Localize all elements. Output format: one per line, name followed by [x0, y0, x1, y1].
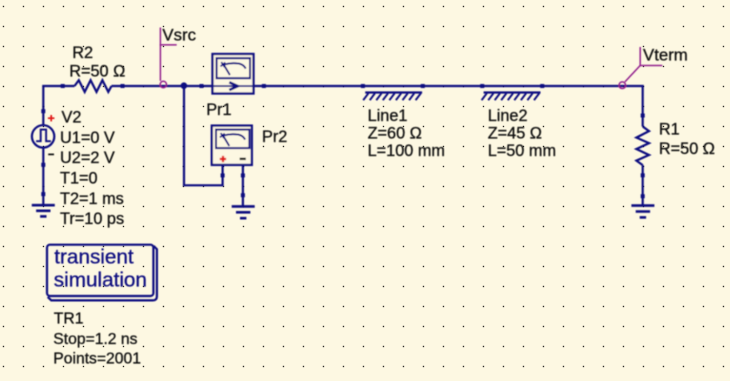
- Pr2 arc: [224, 134, 246, 139]
- sim box shadow: [48, 246, 157, 301]
- Pr1 internal wire: [213, 85, 254, 87]
- svg-text:Vterm: Vterm: [643, 46, 688, 65]
- terminal V2 bottom: [41, 163, 45, 167]
- Line1 hatches: [363, 93, 421, 100]
- terminal ground R1: [641, 194, 645, 198]
- wire: Pr1 to right corner, down to R1: [254, 86, 643, 127]
- svg-text:R2: R2: [72, 44, 93, 62]
- terminal Pr1 right: [262, 84, 266, 88]
- terminal Line2 left: [480, 84, 484, 88]
- svg-text:Stop=1.2 ns: Stop=1.2 ns: [53, 331, 137, 348]
- resistor R1: [636, 114, 715, 178]
- svg-text:T1=0: T1=0: [60, 169, 98, 187]
- op meter Pr2 (voltage probe): [212, 126, 288, 178]
- svg-text:simulation: simulation: [54, 269, 147, 292]
- svg-text:Vsrc: Vsrc: [162, 26, 196, 45]
- wire: node down to Pr2 left terminal: [184, 86, 223, 185]
- terminal Line1 right: [421, 84, 425, 88]
- Line2 hatches: [482, 93, 540, 100]
- V2 circle: [32, 125, 54, 147]
- Pr2 needle feather: [220, 133, 225, 138]
- Pr1 needle: [223, 64, 230, 75]
- terminal R1 top: [641, 114, 645, 118]
- node label Vsrc: [160, 28, 177, 88]
- V2 minus mark: [48, 153, 54, 155]
- node junction: [181, 82, 188, 89]
- svg-text:Points=2001: Points=2001: [53, 351, 141, 368]
- svg-text:U1=0 V: U1=0 V: [60, 129, 115, 147]
- transmission line Line2: [480, 84, 556, 160]
- V2 pulse glyph: [36, 130, 51, 142]
- R1 zigzag: [636, 127, 649, 166]
- ground (V2): [32, 205, 55, 216]
- svg-text:Line1: Line1: [368, 107, 408, 125]
- svg-text:L=50 mm: L=50 mm: [488, 142, 556, 160]
- svg-text:Line2: Line2: [488, 107, 528, 125]
- terminal ground Pr2: [241, 193, 245, 197]
- svg-text:Z=60 Ω: Z=60 Ω: [368, 124, 422, 142]
- svg-text:U2=2 V: U2=2 V: [60, 149, 115, 167]
- terminal Pr2 right: [241, 173, 245, 177]
- svg-text:Z=45 Ω: Z=45 Ω: [488, 124, 542, 142]
- ground (Pr2): [232, 206, 255, 218]
- svg-text:TR1: TR1: [54, 310, 84, 327]
- svg-text:L=100 mm: L=100 mm: [368, 142, 445, 160]
- wire: R1 bottom to ground: [642, 165, 644, 206]
- Line1 ground bar: [365, 91, 422, 93]
- svg-text:R1: R1: [659, 120, 680, 138]
- wire: Pr2 right terminal to ground: [242, 165, 244, 207]
- terminal R2 left: [61, 84, 65, 88]
- ground (R1): [631, 206, 654, 218]
- node label Vterm: [619, 47, 662, 88]
- wire: R2 to Pr1: [112, 85, 213, 87]
- Pr2 outer box: [212, 126, 252, 165]
- svg-text:Pr2: Pr2: [262, 128, 287, 146]
- wire: V2 bottom to ground: [42, 148, 44, 205]
- transmission line Line1: [361, 84, 445, 160]
- resistor R2: [75, 80, 112, 92]
- sim box frame: [47, 245, 153, 296]
- Line2 ground bar: [484, 91, 541, 93]
- svg-text:transient: transient: [54, 246, 134, 269]
- Pr2 meter face: [216, 130, 249, 149]
- terminal Line1 left: [361, 84, 365, 88]
- Pr1 needle feather: [221, 62, 226, 67]
- Pr2 plus mark: [220, 156, 226, 162]
- svg-text:R=50 Ω: R=50 Ω: [659, 140, 715, 158]
- terminal ground V2: [41, 192, 45, 196]
- simulation box: [47, 245, 157, 301]
- terminal Pr1 left: [200, 84, 204, 88]
- Pr2 needle: [223, 135, 230, 146]
- terminal R2 right: [121, 84, 125, 88]
- Pr1 outer box: [213, 54, 254, 94]
- Pr2 minus mark: [240, 158, 246, 160]
- terminal Line2 right: [540, 84, 544, 88]
- Pr1 arc: [224, 63, 246, 68]
- Pr1 meter face: [217, 58, 250, 78]
- svg-text:V2: V2: [62, 108, 82, 126]
- voltage source V2: [32, 109, 55, 167]
- terminal R1 bottom: [641, 173, 645, 177]
- op meter Pr1 (current probe): [200, 54, 266, 119]
- svg-text:Pr1: Pr1: [206, 101, 231, 119]
- svg-text:T2=1 ms: T2=1 ms: [60, 190, 124, 208]
- terminal V2 top: [41, 109, 45, 113]
- terminal Pr2 left: [221, 173, 225, 177]
- svg-text:Tr=10 ps: Tr=10 ps: [60, 210, 124, 228]
- Pr1 arrow: [229, 82, 238, 90]
- wire: top-left corner V2 to R2: [43, 86, 74, 125]
- svg-text:R=50 Ω: R=50 Ω: [69, 63, 125, 81]
- V2 plus mark: [48, 115, 55, 121]
